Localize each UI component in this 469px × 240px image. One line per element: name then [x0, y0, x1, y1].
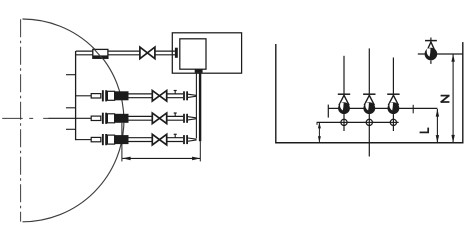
sprinkler B body: [363, 48, 375, 156]
dimension L line: [436, 109, 439, 143]
branch line 1 from header: [76, 95, 92, 97]
monitor supply pipe (double line): [76, 51, 175, 55]
dimension N line: [451, 54, 454, 143]
bleed cock on branch 2: [174, 113, 177, 116]
dimension extension line left: [121, 123, 123, 162]
coupling body on branch 1: [107, 91, 114, 100]
lower distribution pipe: [317, 122, 399, 125]
arc segment over coupling sleeve: [94, 49, 103, 59]
pipe branch 1 to riser (double line): [167, 94, 183, 98]
sprinkler A body: [338, 56, 350, 131]
high level sprinkler pipe: [418, 53, 463, 55]
pipe junction cross C: [390, 119, 396, 125]
flange pair on branch 3: [102, 134, 107, 145]
tank right wall: [462, 42, 464, 143]
coupling block on branch 3: [115, 135, 129, 144]
coupling body on branch 2: [107, 114, 114, 123]
sprinkler C body: [387, 58, 399, 132]
flange pair on branch 2: [102, 113, 107, 124]
tank bottom: [275, 142, 463, 144]
dimension line with arrows: [122, 157, 200, 161]
label L (rotated): [420, 128, 429, 133]
flange pair at riser branch 1: [183, 91, 188, 100]
small dimension arrow (pipe height): [318, 122, 321, 142]
pipe branch 3 to riser (double line): [167, 138, 183, 142]
tank left wall: [275, 44, 277, 143]
pipe junction cross B: [366, 119, 372, 125]
dimension extension line right: [199, 141, 201, 161]
pipe branch 2 to riser (double line): [167, 116, 183, 120]
bleed cock on branch 1: [174, 91, 177, 94]
coupling body on branch 3: [107, 135, 114, 144]
coupling block on branch 2: [115, 114, 129, 123]
label N (rotated): [441, 95, 450, 102]
gate valve on branch 3: [152, 134, 166, 145]
bleed cock on branch 3: [174, 134, 177, 137]
hose nipple on branch 2: [91, 116, 101, 120]
cabinet inner box (monitor unit): [180, 39, 206, 69]
coupling block on branch 1: [115, 91, 129, 100]
header stub 2: [66, 107, 76, 109]
flange at cabinet inlet: [175, 48, 178, 58]
header stub 1: [66, 74, 76, 76]
flange pair at riser branch 3: [183, 135, 188, 144]
pipe junction cross A: [341, 119, 347, 125]
hose nipple on branch 1: [91, 94, 101, 98]
riser pipe from cabinet (double line): [196, 73, 200, 142]
high level sprinkler: [425, 38, 438, 64]
flange pair at riser branch 2: [183, 114, 188, 123]
pipe branch 3 segment (double line): [129, 138, 153, 142]
branch line 2 from header: [49, 117, 92, 119]
pipe stub into riser branch 3 (double line): [188, 138, 197, 141]
flange pair on branch 1: [102, 90, 107, 101]
branch line 3 from header: [76, 139, 92, 141]
shut-off valve on monitor supply: [140, 47, 155, 59]
pipe stub into riser branch 1 (double line): [188, 94, 197, 97]
pipe branch 1 segment (double line): [129, 94, 153, 98]
horizontal centerline of monitor: [2, 117, 49, 119]
header stub 3: [66, 128, 76, 130]
vertical centerline of monitor: [20, 19, 22, 221]
gate valve on branch 2: [152, 113, 166, 124]
hose nipple on branch 3: [91, 137, 101, 141]
pipe coupling sleeve on monitor supply: [93, 49, 108, 58]
supply header pipe: [75, 51, 77, 140]
sprinkler manifold pipe: [328, 105, 437, 118]
gate valve on branch 1: [152, 91, 166, 102]
monitor range arc: [23, 19, 124, 222]
cabinet outlet tab: [195, 69, 203, 72]
cabinet outer box: [172, 33, 241, 73]
pipe stub into riser branch 2 (double line): [188, 117, 197, 120]
pipe branch 2 segment (double line): [129, 116, 153, 120]
